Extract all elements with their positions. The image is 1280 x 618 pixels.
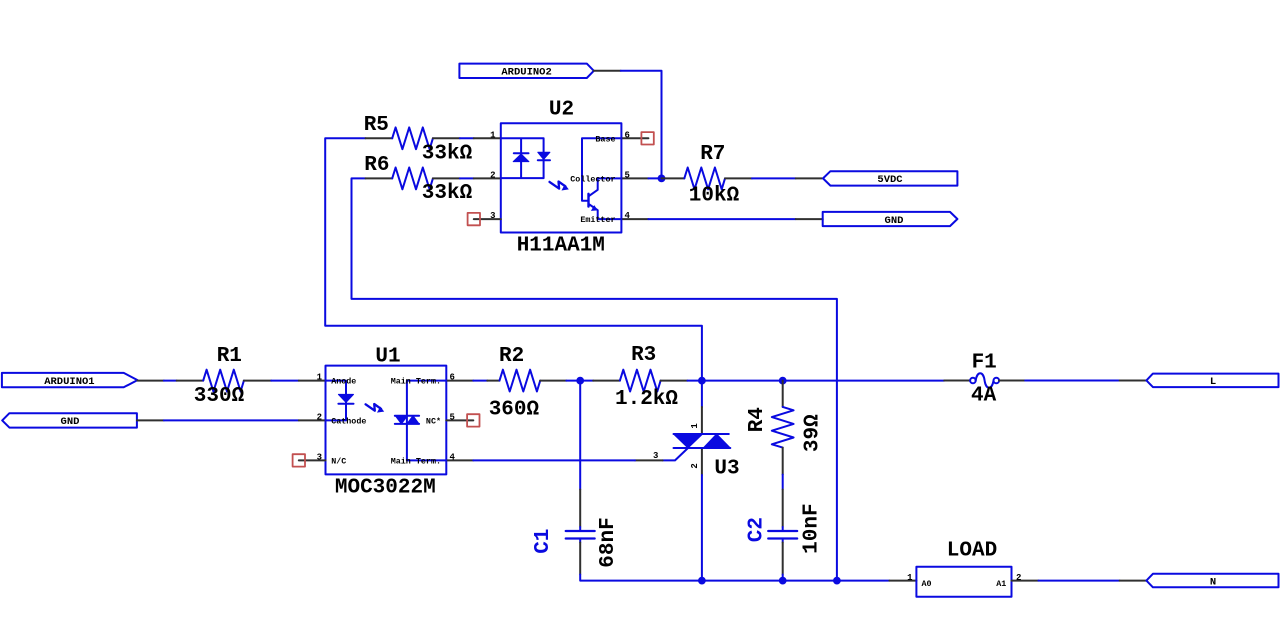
- U1 internal triac: [407, 381, 446, 461]
- svg-text:N/C: N/C: [331, 457, 346, 467]
- node U3 bottom junction: [698, 577, 706, 585]
- svg-text:10nF: 10nF: [801, 503, 824, 553]
- global label 5VDC: [823, 171, 957, 186]
- svg-text:6: 6: [450, 373, 455, 383]
- svg-text:3: 3: [317, 452, 322, 462]
- svg-text:4A: 4A: [971, 385, 997, 408]
- U1 pin 5: [446, 419, 473, 421]
- capacitor C1: [532, 381, 620, 575]
- svg-text:1: 1: [490, 130, 496, 140]
- node N column junction: [833, 577, 841, 585]
- svg-text:2: 2: [1016, 573, 1021, 583]
- global label ARDUINO2: [459, 64, 593, 79]
- unconnected marker U1 pin 3: [293, 454, 305, 466]
- svg-text:A1: A1: [996, 579, 1006, 589]
- resistor R4: [746, 381, 825, 475]
- svg-text:R7: R7: [700, 143, 725, 166]
- svg-text:N: N: [1210, 576, 1216, 588]
- wire ARDUINO1 stub: [138, 380, 164, 382]
- wire U2 pin4 to GND: [648, 218, 795, 220]
- resistor R1: [177, 345, 272, 408]
- svg-text:Cathode: Cathode: [331, 417, 366, 427]
- global label ARDUINO1: [2, 373, 138, 388]
- U2 pin 5: [621, 177, 648, 179]
- svg-text:Anode: Anode: [331, 377, 356, 387]
- svg-text:A0: A0: [922, 579, 932, 589]
- svg-text:68nF: 68nF: [597, 517, 620, 567]
- svg-text:39Ω: 39Ω: [802, 414, 825, 452]
- unconnected marker U1 pin 5: [467, 414, 479, 426]
- unconnected marker U2 pin 3: [468, 213, 480, 225]
- wire F1 to L label: [1025, 380, 1119, 382]
- wire ARDUINO2 stub (black): [594, 70, 621, 72]
- svg-text:ARDUINO1: ARDUINO1: [44, 376, 94, 388]
- svg-text:1: 1: [690, 423, 700, 429]
- svg-text:MOC3022M: MOC3022M: [335, 477, 436, 500]
- op-amp U1 MOC3022M optocoupler: [299, 346, 474, 500]
- wire R6 to U2 pin2: [460, 177, 474, 179]
- U2 light arrow: [550, 182, 566, 189]
- svg-text:GND: GND: [885, 215, 904, 227]
- svg-text:2: 2: [690, 463, 700, 468]
- unconnected marker U2 pin 6: [641, 132, 653, 144]
- U2 pin 1: [474, 137, 501, 139]
- svg-text:2: 2: [490, 170, 495, 180]
- node R4 top junction: [779, 377, 787, 385]
- U1 pin 3: [299, 459, 326, 461]
- node C2 bottom junction: [779, 577, 787, 585]
- svg-text:1: 1: [317, 373, 323, 383]
- wire ARDUINO1 to R1: [164, 380, 177, 382]
- U1 pin 1: [299, 380, 326, 382]
- svg-text:Emitter: Emitter: [580, 215, 615, 225]
- svg-text:H11AA1M: H11AA1M: [517, 235, 605, 258]
- svg-text:3: 3: [653, 451, 658, 461]
- svg-text:6: 6: [625, 130, 630, 140]
- svg-text:U1: U1: [375, 346, 400, 369]
- svg-text:Base: Base: [595, 134, 615, 144]
- svg-text:2: 2: [317, 412, 322, 422]
- wire R2 to R3 (through C1 node): [566, 380, 593, 382]
- U2 internal transistor: [582, 138, 621, 200]
- U1 internal LED: [326, 381, 347, 421]
- U2 pin 4: [621, 218, 648, 220]
- svg-text:1.2kΩ: 1.2kΩ: [615, 388, 678, 411]
- U2 pin 6: [621, 137, 648, 139]
- svg-text:1: 1: [907, 573, 913, 583]
- wire U3 pin2 to bottom row: [701, 475, 703, 581]
- svg-text:C1: C1: [532, 529, 555, 554]
- wire C1 bottom row: [580, 575, 889, 581]
- svg-text:ARDUINO2: ARDUINO2: [501, 67, 551, 79]
- node junction at ARDUINO2/R7: [658, 175, 666, 183]
- node C1 top junction: [576, 377, 584, 385]
- svg-text:Main Term.: Main Term.: [391, 457, 441, 467]
- U3 gate: [663, 448, 688, 460]
- U1 light arrow: [366, 404, 381, 411]
- wire C2 bottom: [782, 575, 784, 581]
- svg-text:R3: R3: [631, 344, 656, 367]
- svg-text:Collector: Collector: [570, 175, 615, 185]
- svg-text:R4: R4: [746, 407, 769, 432]
- transistor U3 triac: [635, 407, 740, 480]
- svg-text:4: 4: [450, 452, 456, 462]
- global label GND (top): [823, 212, 958, 227]
- global label L: [1146, 374, 1278, 389]
- wire GND to U1 pin2: [164, 419, 299, 421]
- U1 pin 6: [446, 380, 473, 382]
- wire R3 to F1 (L node row): [688, 380, 945, 382]
- wire ARDUINO2 to junction: [621, 71, 662, 179]
- wire R5 to U2 pin1: [460, 137, 474, 139]
- svg-text:NC*: NC*: [426, 417, 441, 427]
- wire U1 pin6 to R2: [473, 380, 487, 382]
- svg-text:C2: C2: [746, 517, 769, 542]
- svg-text:U2: U2: [549, 99, 574, 122]
- global label N: [1146, 574, 1278, 589]
- svg-text:R5: R5: [364, 114, 389, 137]
- resistor R6: [364, 154, 472, 205]
- svg-text:Main Term.: Main Term.: [391, 377, 441, 387]
- svg-text:L: L: [1210, 376, 1216, 388]
- svg-text:4: 4: [625, 211, 631, 221]
- svg-text:5: 5: [450, 412, 455, 422]
- wire L node to U3 pin1: [701, 381, 703, 407]
- svg-text:33kΩ: 33kΩ: [422, 182, 473, 205]
- wire R6 left to N node (blue polyline): [352, 178, 837, 580]
- fuse F1: [944, 351, 1025, 407]
- svg-text:10kΩ: 10kΩ: [689, 185, 740, 208]
- svg-text:F1: F1: [972, 351, 997, 374]
- U2 internal LED pair: [501, 138, 544, 178]
- wire R7 to 5VDC: [752, 177, 796, 179]
- global label GND (left): [2, 413, 137, 428]
- svg-text:360Ω: 360Ω: [489, 399, 540, 422]
- svg-text:R1: R1: [217, 345, 242, 368]
- svg-text:33kΩ: 33kΩ: [422, 143, 473, 166]
- wire R5 left to L node (blue polyline): [325, 138, 702, 380]
- svg-text:R6: R6: [364, 154, 389, 177]
- svg-text:GND: GND: [61, 416, 80, 428]
- svg-text:5VDC: 5VDC: [877, 174, 903, 186]
- resistor R7: [662, 143, 753, 208]
- wire R1 to U1 pin1: [271, 380, 299, 382]
- svg-text:3: 3: [490, 211, 495, 221]
- component LOAD: [889, 540, 1038, 597]
- svg-text:5: 5: [625, 170, 630, 180]
- svg-text:LOAD: LOAD: [947, 540, 997, 563]
- wire U2 pin5 to junction: [648, 177, 661, 179]
- resistor R3: [593, 344, 687, 411]
- wire U1 pin4 to U3 gate: [473, 459, 635, 461]
- svg-text:U3: U3: [714, 457, 739, 480]
- resistor R2: [487, 345, 566, 422]
- svg-text:R2: R2: [499, 345, 524, 368]
- resistor R5: [364, 114, 473, 165]
- U2 pin 3: [474, 218, 501, 220]
- wire R4 to C2: [782, 475, 784, 490]
- capacitor C2: [746, 490, 824, 575]
- wire LOAD to N label: [1039, 580, 1120, 582]
- op-amp U2 H11AA1M optocoupler: [474, 99, 649, 258]
- U1 pin 4: [446, 459, 473, 461]
- U2 pin 2: [474, 177, 501, 179]
- svg-text:330Ω: 330Ω: [194, 385, 245, 408]
- U1 pin 2: [299, 419, 326, 421]
- node triac top junction: [698, 377, 706, 385]
- wire GND stub: [137, 419, 164, 421]
